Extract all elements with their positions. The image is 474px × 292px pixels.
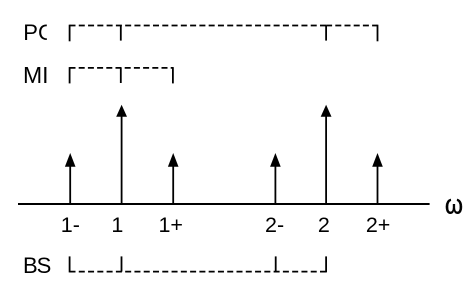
svg-text:2: 2 xyxy=(318,213,330,237)
bracket PC end tick left xyxy=(69,25,71,42)
svg-text:1: 1 xyxy=(111,213,123,237)
svg-text:BS: BS xyxy=(23,253,51,278)
bracket BS end tick right xyxy=(325,256,327,272)
bracket PC end tick right xyxy=(377,25,379,42)
svg-text:ω: ω xyxy=(445,190,463,220)
spectral arrow 2 (tall) xyxy=(321,105,332,204)
bracket BS end tick left xyxy=(69,256,71,272)
svg-text:1-: 1- xyxy=(61,213,80,237)
bracket MI dashed top line xyxy=(70,67,174,69)
frequency axis xyxy=(18,203,430,205)
bracket MI end tick right xyxy=(172,67,174,83)
spectral arrow 1 (tall) xyxy=(116,105,127,204)
bracket PC tick at node 2 xyxy=(325,26,327,41)
bracket PC tick at node 1 xyxy=(120,26,122,41)
spectral arrow 2+ xyxy=(372,153,383,204)
label PC xyxy=(23,20,54,45)
bracket MI tick at node 1 xyxy=(120,68,122,83)
spectral arrow 1- xyxy=(65,153,76,204)
bracket BS tick at node 1 xyxy=(121,256,123,271)
svg-text:2-: 2- xyxy=(265,213,284,237)
svg-text:1+: 1+ xyxy=(158,213,183,237)
bracket PC dashed top line xyxy=(70,25,327,27)
svg-text:MI: MI xyxy=(23,62,49,88)
svg-text:PC: PC xyxy=(23,20,54,45)
svg-text:2+: 2+ xyxy=(366,213,391,237)
spectral arrow 2- xyxy=(270,153,281,204)
spectral arrow 1+ xyxy=(168,153,179,204)
bracket BS dashed bottom line xyxy=(70,271,327,273)
bracket MI end tick left xyxy=(69,67,71,83)
bracket BS tick at node 2- xyxy=(275,256,277,271)
